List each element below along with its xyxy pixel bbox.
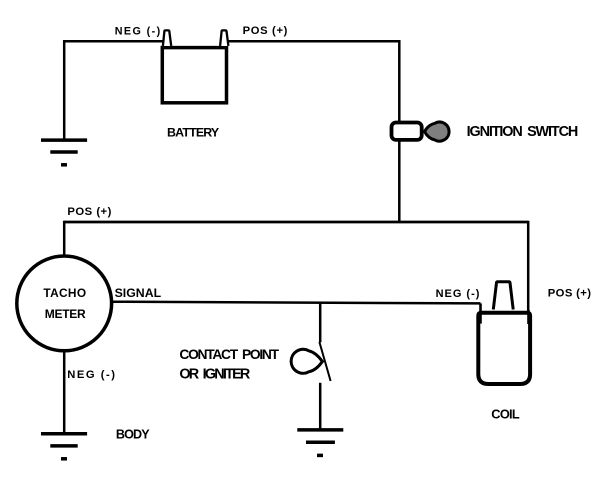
- svg-text:COIL: COIL: [491, 407, 520, 422]
- svg-text:IGNITION SWITCH: IGNITION SWITCH: [467, 124, 579, 140]
- svg-text:METER: METER: [45, 307, 86, 321]
- svg-text:CONTACT POINT: CONTACT POINT: [179, 347, 279, 362]
- svg-text:NEG (-): NEG (-): [115, 26, 161, 38]
- svg-text:POS (+): POS (+): [67, 206, 111, 218]
- svg-text:NEG (-): NEG (-): [67, 369, 115, 381]
- svg-text:SIGNAL: SIGNAL: [115, 286, 162, 300]
- svg-text:POS (+): POS (+): [243, 25, 288, 37]
- svg-text:OR IGNITER: OR IGNITER: [179, 367, 250, 383]
- svg-text:BATTERY: BATTERY: [167, 125, 220, 139]
- svg-text:NEG (-): NEG (-): [436, 288, 480, 300]
- svg-text:TACHO: TACHO: [43, 286, 86, 300]
- svg-text:POS (+): POS (+): [548, 288, 591, 300]
- svg-text:BODY: BODY: [116, 428, 150, 442]
